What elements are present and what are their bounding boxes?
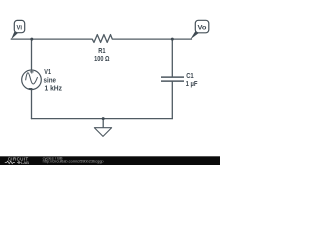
svg-text:1 µF: 1 µF [186,79,198,88]
svg-text:http://circuitlab.com/c/59bb23: http://circuitlab.com/c/59bb23bcggp [43,160,104,164]
svg-text:Vi: Vi [17,24,23,31]
svg-text:Vo: Vo [198,24,207,31]
svg-text:1 kHz: 1 kHz [45,83,63,92]
svg-text:LAB: LAB [21,160,29,165]
svg-text:100 Ω: 100 Ω [94,54,110,63]
